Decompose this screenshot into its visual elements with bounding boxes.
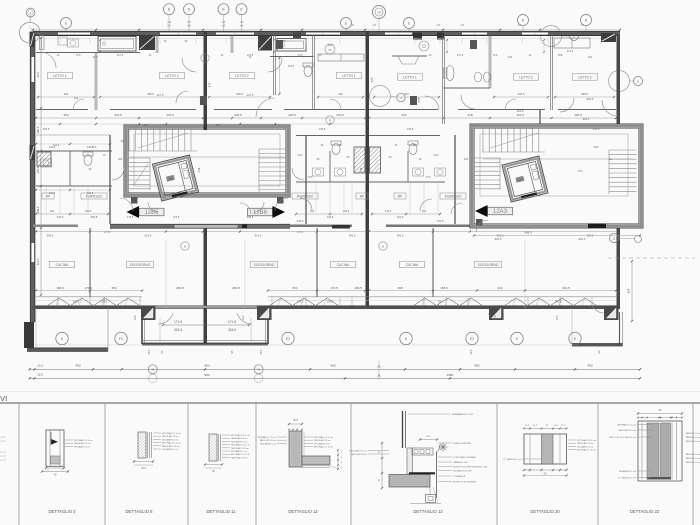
svg-text:30.5: 30.5 <box>147 349 151 355</box>
svg-text:156.5: 156.5 <box>440 286 448 290</box>
svg-text:E2: E2 <box>286 337 290 341</box>
svg-text:399.5: 399.5 <box>349 234 356 238</box>
svg-text:196.5: 196.5 <box>73 300 80 304</box>
svg-text:334.5: 334.5 <box>518 92 525 96</box>
svg-text:LETTO 2: LETTO 2 <box>235 74 248 78</box>
svg-text:INTONACO 1.5 cm: INTONACO 1.5 cm <box>231 453 250 456</box>
svg-text:B: B <box>222 8 224 12</box>
svg-text:m5: m5 <box>222 20 226 24</box>
svg-text:SOGGIORNO: SOGGIORNO <box>478 263 499 267</box>
svg-text:RP: RP <box>360 194 364 198</box>
svg-text:ISOLANTE 4 cm: ISOLANTE 4 cm <box>260 442 276 445</box>
svg-text:475: 475 <box>208 82 212 87</box>
svg-text:1580: 1580 <box>447 373 454 377</box>
svg-text:INTONACO 1.5 cm: INTONACO 1.5 cm <box>314 446 333 449</box>
svg-text:324.5: 324.5 <box>228 328 236 332</box>
svg-text:280.5: 280.5 <box>36 126 40 133</box>
svg-text:358: 358 <box>558 53 563 57</box>
svg-text:134.5: 134.5 <box>57 215 64 219</box>
svg-text:22.5: 22.5 <box>37 373 43 377</box>
svg-text:CUCINA: CUCINA <box>406 263 419 267</box>
svg-text:m5: m5 <box>167 20 171 24</box>
svg-text:134.5: 134.5 <box>36 166 40 173</box>
svg-text:DETTAGLIO 22: DETTAGLIO 22 <box>630 509 660 514</box>
svg-text:ISOLANTE 7 cm: ISOLANTE 7 cm <box>231 450 247 453</box>
svg-text:162: 162 <box>588 55 593 59</box>
svg-text:134.5: 134.5 <box>49 145 56 149</box>
svg-text:E: E <box>65 21 67 25</box>
svg-text:13: 13 <box>347 155 350 159</box>
svg-text:INTONACO 1.5 cm: INTONACO 1.5 cm <box>231 444 250 447</box>
svg-text:225.5: 225.5 <box>288 113 296 117</box>
svg-text:354: 354 <box>111 286 116 290</box>
svg-text:139: 139 <box>144 123 149 127</box>
svg-text:399.5: 399.5 <box>36 206 40 213</box>
svg-text:460: 460 <box>75 364 80 368</box>
svg-text:460: 460 <box>587 364 592 368</box>
svg-text:334.5: 334.5 <box>234 113 242 117</box>
svg-text:m5: m5 <box>580 23 584 27</box>
svg-text:TAVOLATO 8 cm: TAVOLATO 8 cm <box>577 442 594 445</box>
svg-text:12A3: 12A3 <box>493 209 508 215</box>
svg-text:983: 983 <box>204 373 209 377</box>
svg-text:10.5: 10.5 <box>556 315 559 320</box>
svg-text:291.5: 291.5 <box>562 286 570 290</box>
svg-text:DUVETTO IN LATERGI: DUVETTO IN LATERGI <box>453 481 476 484</box>
svg-text:260.5: 260.5 <box>232 286 240 290</box>
svg-text:162: 162 <box>422 209 427 213</box>
svg-text:72.5: 72.5 <box>308 176 313 179</box>
svg-text:163.5: 163.5 <box>516 113 524 117</box>
svg-text:30: 30 <box>185 39 188 43</box>
svg-text:72.5: 72.5 <box>298 54 303 57</box>
svg-text:LETTO 1: LETTO 1 <box>342 74 355 78</box>
svg-text:196.5: 196.5 <box>56 286 64 290</box>
svg-text:224: 224 <box>497 286 502 290</box>
svg-text:163.5: 163.5 <box>517 109 524 113</box>
svg-text:LETTO 2: LETTO 2 <box>519 75 532 79</box>
svg-text:134.5: 134.5 <box>327 215 334 219</box>
svg-text:GIANA 2/2 CM: GIANA 2/2 CM <box>453 461 468 464</box>
svg-text:INGRESSO 1 cm: INGRESSO 1 cm <box>619 471 636 473</box>
svg-text:TAVOLATO 12 cm: TAVOLATO 12 cm <box>618 429 636 432</box>
svg-text:12B6: 12B6 <box>253 210 268 216</box>
svg-text:10.5: 10.5 <box>134 315 137 320</box>
svg-text:162: 162 <box>50 209 55 213</box>
svg-text:26.5: 26.5 <box>141 467 146 470</box>
svg-text:INTONACO 1.5 cm: INTONACO 1.5 cm <box>314 436 333 439</box>
svg-text:233.5: 233.5 <box>336 113 344 117</box>
svg-text:399.5: 399.5 <box>247 215 254 219</box>
svg-text:196.5: 196.5 <box>354 286 362 290</box>
svg-text:INTONACO 1.5 cm: INTONACO 1.5 cm <box>74 439 93 442</box>
svg-text:324.5: 324.5 <box>174 328 182 332</box>
svg-text:LETTO 2: LETTO 2 <box>578 75 591 79</box>
svg-text:107.5: 107.5 <box>117 54 124 57</box>
svg-text:171.5: 171.5 <box>174 320 182 324</box>
svg-text:CUCINA: CUCINA <box>56 263 69 267</box>
svg-text:TAVOLATO 8 cm: TAVOLATO 8 cm <box>74 442 91 445</box>
svg-text:ISOLANTE 1/2 CM: ISOLANTE 1/2 CM <box>453 470 472 473</box>
svg-text:TAVELLE 2 cm: TAVELLE 2 cm <box>685 457 700 460</box>
svg-text:963.5: 963.5 <box>583 117 590 121</box>
svg-text:225.5: 225.5 <box>114 113 122 117</box>
svg-text:LIGRE IN PETRA: LIGRE IN PETRA <box>453 442 471 445</box>
svg-text:11: 11 <box>613 236 616 240</box>
svg-text:B: B <box>188 8 190 12</box>
svg-text:m5: m5 <box>240 24 244 28</box>
svg-text:m5: m5 <box>372 23 376 27</box>
svg-text:LT. TAVELLE 7 cm: LT. TAVELLE 7 cm <box>503 458 521 461</box>
svg-text:983: 983 <box>204 364 209 368</box>
svg-text:173.5: 173.5 <box>84 286 92 290</box>
svg-text:225.5: 225.5 <box>593 127 600 131</box>
svg-text:LETTO 2: LETTO 2 <box>165 74 178 78</box>
svg-text:332: 332 <box>64 92 69 96</box>
svg-text:LETTO 1: LETTO 1 <box>53 74 66 78</box>
svg-text:m5: m5 <box>240 20 244 24</box>
svg-text:SERRAMENTO V. 90: SERRAMENTO V. 90 <box>452 413 474 416</box>
svg-text:INTONACO 1.5 cm: INTONACO 1.5 cm <box>162 432 181 435</box>
svg-text:107.5: 107.5 <box>457 54 464 57</box>
svg-text:IVI: IVI <box>0 394 7 403</box>
svg-text:m5: m5 <box>460 23 464 27</box>
svg-text:DETTAGLIO 3: DETTAGLIO 3 <box>49 509 77 514</box>
svg-text:DETTAGLIO 12: DETTAGLIO 12 <box>288 509 318 514</box>
svg-text:72.5: 72.5 <box>426 176 431 179</box>
svg-text:30.5: 30.5 <box>469 349 473 355</box>
svg-text:TAVOLATO 8 cm: TAVOLATO 8 cm <box>231 456 248 459</box>
svg-text:332: 332 <box>338 92 343 96</box>
svg-text:134.5: 134.5 <box>87 191 94 195</box>
svg-text:m5: m5 <box>350 23 354 27</box>
svg-text:242: 242 <box>328 43 333 47</box>
svg-text:TAVOLATO 12 cm: TAVOLATO 12 cm <box>231 447 249 450</box>
svg-text:173.5: 173.5 <box>127 215 134 219</box>
svg-text:162: 162 <box>310 209 315 213</box>
svg-text:CUCINA: CUCINA <box>337 263 350 267</box>
svg-text:10.5: 10.5 <box>494 315 497 320</box>
svg-text:B: B <box>382 244 384 248</box>
svg-text:F2: F2 <box>119 337 123 341</box>
svg-text:CONTORNO IN FIAME: CONTORNO IN FIAME <box>453 456 476 459</box>
svg-text:m5: m5 <box>222 24 226 28</box>
svg-text:CORRENTE: CORRENTE <box>453 476 466 478</box>
svg-text:318: 318 <box>467 113 472 117</box>
svg-text:134.5: 134.5 <box>437 219 444 223</box>
svg-text:614.5: 614.5 <box>255 234 262 238</box>
svg-text:139: 139 <box>216 123 221 127</box>
svg-text:963.5: 963.5 <box>495 237 502 241</box>
svg-text:DETTAGLIO 8: DETTAGLIO 8 <box>126 509 154 514</box>
svg-text:72.5: 72.5 <box>578 170 583 173</box>
svg-text:E2: E2 <box>470 337 474 341</box>
svg-text:72.5: 72.5 <box>76 54 81 57</box>
svg-text:73: 73 <box>164 39 167 43</box>
svg-text:INTONACO 1.5 cm: INTONACO 1.5 cm <box>577 439 596 442</box>
svg-text:196.5: 196.5 <box>327 300 334 304</box>
svg-text:166: 166 <box>74 96 79 100</box>
svg-text:475: 475 <box>417 97 421 102</box>
svg-text:TAVELLE 2 cm: TAVELLE 2 cm <box>685 453 700 456</box>
svg-text:INTONACO 1.5 cm: INTONACO 1.5 cm <box>577 449 596 452</box>
svg-text:173.5: 173.5 <box>330 286 338 290</box>
svg-text:30: 30 <box>89 167 92 171</box>
svg-text:14.5: 14.5 <box>298 154 303 157</box>
svg-text:20: 20 <box>377 10 381 14</box>
svg-text:30.5: 30.5 <box>259 349 263 355</box>
svg-text:134.5: 134.5 <box>87 145 94 149</box>
svg-text:ISOLANTE 7 cm: ISOLANTE 7 cm <box>162 448 178 451</box>
svg-text:134.5: 134.5 <box>407 127 414 131</box>
svg-text:m5: m5 <box>167 24 171 28</box>
svg-text:INGRESSO: INGRESSO <box>445 194 462 198</box>
svg-text:358: 358 <box>627 288 631 293</box>
svg-text:B: B <box>240 8 242 12</box>
svg-text:MOSETTO DI PROTEZIONE 4 CM: MOSETTO DI PROTEZIONE 4 CM <box>453 467 487 469</box>
svg-text:363.5: 363.5 <box>574 113 582 117</box>
svg-text:134.5: 134.5 <box>297 219 304 223</box>
svg-text:334.5: 334.5 <box>166 113 174 117</box>
svg-text:399.5: 399.5 <box>397 234 404 238</box>
svg-text:30.5: 30.5 <box>594 146 599 149</box>
svg-text:162: 162 <box>118 157 123 161</box>
svg-text:INTONACO 1.5 cm: INTONACO 1.5 cm <box>617 424 636 427</box>
svg-text:E: E <box>345 21 347 25</box>
svg-text:134.5: 134.5 <box>319 127 326 131</box>
svg-text:TAVOLATO 12 cm: TAVOLATO 12 cm <box>162 445 180 448</box>
svg-text:LT. TAVELLE 2 cm: LT. TAVELLE 2 cm <box>618 477 636 480</box>
svg-text:983: 983 <box>474 364 479 368</box>
svg-text:399.5: 399.5 <box>47 234 54 238</box>
svg-text:568.5: 568.5 <box>524 231 532 235</box>
svg-text:134.5: 134.5 <box>85 209 92 213</box>
svg-text:m5: m5 <box>187 20 191 24</box>
svg-text:TAVELLE 2 cm: TAVELLE 2 cm <box>685 436 700 439</box>
svg-text:30: 30 <box>317 157 320 161</box>
svg-text:RP: RP <box>398 194 402 198</box>
svg-text:173.5: 173.5 <box>101 300 108 304</box>
svg-text:123.5: 123.5 <box>288 65 295 68</box>
svg-text:162: 162 <box>464 157 469 161</box>
svg-text:INGRESSO: INGRESSO <box>297 194 314 198</box>
svg-text:74: 74 <box>249 55 252 59</box>
svg-text:354: 354 <box>292 286 297 290</box>
svg-text:B: B <box>585 18 587 22</box>
svg-text:TAVOLATO 12 cm: TAVOLATO 12 cm <box>349 450 367 453</box>
svg-text:107.5: 107.5 <box>157 93 164 97</box>
svg-text:TAVOLATO 8 cm: TAVOLATO 8 cm <box>314 439 331 442</box>
svg-text:INTONACO 1.5 cm: INTONACO 1.5 cm <box>231 434 250 437</box>
svg-text:SOGGIORNO: SOGGIORNO <box>254 263 275 267</box>
svg-text:DETTAGLIO 13: DETTAGLIO 13 <box>413 509 443 514</box>
svg-text:TAVOLATO 8 cm: TAVOLATO 8 cm <box>351 453 368 456</box>
svg-text:358.5: 358.5 <box>581 92 588 96</box>
svg-text:335.5: 335.5 <box>147 92 154 96</box>
svg-text:30: 30 <box>419 157 422 161</box>
svg-text:INTONACO 1.5 cm: INTONACO 1.5 cm <box>162 442 181 445</box>
svg-text:614.5: 614.5 <box>145 234 152 238</box>
svg-text:260.5: 260.5 <box>176 286 184 290</box>
svg-text:TAVELLE 2 cm: TAVELLE 2 cm <box>685 432 700 435</box>
svg-text:INTONACO 1.5 cm: INTONACO 1.5 cm <box>257 436 276 439</box>
svg-text:242: 242 <box>508 55 513 59</box>
svg-text:ISOLANTE 4 cm: ISOLANTE 4 cm <box>162 438 178 441</box>
svg-text:E: E <box>408 21 410 25</box>
svg-text:134.5: 134.5 <box>49 191 56 195</box>
svg-text:12B5: 12B5 <box>144 210 159 216</box>
svg-text:14.5: 14.5 <box>434 154 439 157</box>
svg-text:332: 332 <box>63 113 68 117</box>
svg-text:117.5: 117.5 <box>473 123 480 127</box>
svg-text:219: 219 <box>197 167 201 172</box>
svg-text:DETTAGLIO 20: DETTAGLIO 20 <box>530 509 560 514</box>
svg-text:13.5: 13.5 <box>92 55 98 59</box>
svg-text:B: B <box>522 18 524 22</box>
svg-text:DETTAGLIO 11: DETTAGLIO 11 <box>207 509 237 514</box>
svg-text:173.5: 173.5 <box>297 300 304 304</box>
svg-text:219: 219 <box>359 167 363 172</box>
svg-text:ISOLANTE 4 cm: ISOLANTE 4 cm <box>314 442 330 445</box>
svg-text:10.5: 10.5 <box>242 315 245 320</box>
svg-text:B: B <box>329 118 331 122</box>
svg-text:ISOLANTE 4 cm: ISOLANTE 4 cm <box>231 440 247 443</box>
svg-text:LETTO 1: LETTO 1 <box>403 75 416 79</box>
svg-text:B: B <box>204 56 206 60</box>
svg-text:m5: m5 <box>436 23 440 27</box>
svg-text:TAVOLATO 8 cm: TAVOLATO 8 cm <box>162 435 179 438</box>
svg-text:399.5: 399.5 <box>91 215 98 219</box>
svg-text:SOGGIORNO: SOGGIORNO <box>130 263 151 267</box>
svg-text:475: 475 <box>370 77 374 82</box>
svg-text:107.5: 107.5 <box>247 93 254 97</box>
svg-text:22.5: 22.5 <box>37 364 43 368</box>
svg-text:SETTO IN CLS 30x20.5 cm: SETTO IN CLS 30x20.5 cm <box>609 437 636 439</box>
svg-text:173.5: 173.5 <box>173 215 180 219</box>
svg-text:TAVOLATO 8 cm: TAVOLATO 8 cm <box>231 437 248 440</box>
svg-text:963.5: 963.5 <box>587 97 594 101</box>
svg-text:m5: m5 <box>517 23 521 27</box>
svg-text:224: 224 <box>438 300 443 304</box>
svg-text:414.5: 414.5 <box>36 258 40 265</box>
svg-text:225.5: 225.5 <box>43 127 50 131</box>
svg-text:72.5: 72.5 <box>493 54 498 57</box>
svg-text:291.5: 291.5 <box>555 300 562 304</box>
svg-text:171.5: 171.5 <box>228 320 236 324</box>
svg-text:B: B <box>168 8 170 12</box>
svg-text:342: 342 <box>401 113 406 117</box>
svg-text:13: 13 <box>389 155 392 159</box>
svg-text:TAVELLE 2 cm: TAVELLE 2 cm <box>685 440 700 443</box>
svg-text:963.5: 963.5 <box>579 237 586 241</box>
svg-text:ISOLANTE 4 cm: ISOLANTE 4 cm <box>577 445 593 448</box>
svg-text:B: B <box>184 244 186 248</box>
svg-text:460: 460 <box>330 364 335 368</box>
svg-text:134.5: 134.5 <box>397 215 404 219</box>
svg-text:107.5: 107.5 <box>567 50 574 53</box>
svg-text:134.5: 134.5 <box>385 209 392 213</box>
svg-text:342: 342 <box>404 92 409 96</box>
svg-text:TAVOLATO 8 cm: TAVOLATO 8 cm <box>260 439 277 442</box>
svg-text:198: 198 <box>397 286 402 290</box>
svg-text:43.5: 43.5 <box>36 72 40 78</box>
svg-text:TAVELLE 2 cm: TAVELLE 2 cm <box>685 461 700 464</box>
svg-text:30.5: 30.5 <box>293 419 298 422</box>
svg-text:ISOLANTE 4 cm: ISOLANTE 4 cm <box>74 445 90 448</box>
svg-text:m5: m5 <box>187 24 191 28</box>
svg-text:335.5: 335.5 <box>236 92 243 96</box>
svg-text:73: 73 <box>283 39 286 43</box>
